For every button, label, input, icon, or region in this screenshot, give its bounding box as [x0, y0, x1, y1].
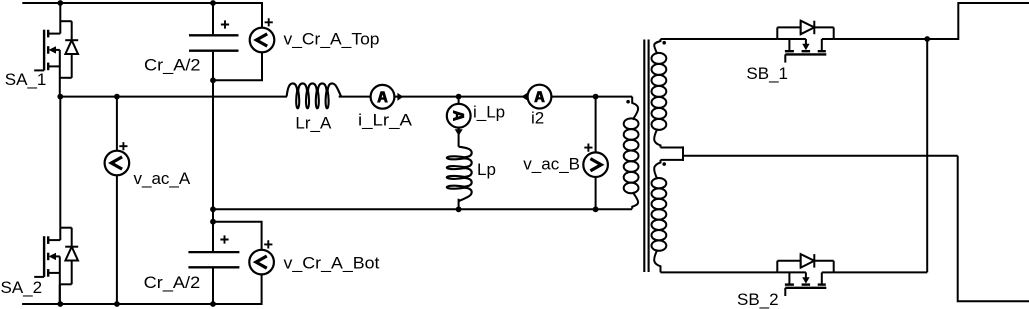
svg-text:i_Lp: i_Lp [473, 103, 505, 122]
svg-text:Lr_A: Lr_A [295, 114, 332, 133]
junction v_ac_A top on mid rail [114, 94, 120, 100]
wire capacitor column [212, 3, 214, 304]
primary phase dot [626, 100, 630, 104]
junction i_Lp branch on mid rail [456, 94, 462, 100]
svg-text:SA_2: SA_2 [1, 278, 43, 297]
svg-text:Cr_A/2: Cr_A/2 [144, 273, 201, 292]
wire mid rail [60, 96, 632, 98]
transistor SA_1 [34, 21, 78, 96]
svg-text:v_Cr_A_Top: v_Cr_A_Top [284, 30, 380, 49]
wire SB_1 rail right to output [834, 3, 1029, 39]
svg-text:i_Lr_A: i_Lr_A [358, 110, 413, 129]
wire SA_2 source to rail [59, 284, 61, 304]
junction top rail / SA_1 drain [57, 0, 63, 6]
voltmeter v_ac_A [105, 151, 130, 176]
transformer secondary bottom winding [652, 160, 667, 273]
wire i_Lp branch [458, 97, 460, 210]
inductor Lr_A [287, 83, 342, 108]
capacitor Cr_A/2 top [189, 35, 239, 50]
wire bottom output [958, 156, 1029, 302]
transistor SB_2 [777, 254, 833, 296]
junction Cr_A top cap / v_Cr_A_Top return [210, 77, 216, 83]
wire SB_2 rail left [661, 271, 778, 273]
transformer primary winding [624, 97, 639, 209]
svg-text:Lp: Lp [477, 160, 496, 179]
ammeter i2 [528, 85, 552, 109]
transformer core [644, 40, 648, 273]
wire bottom rail [22, 274, 262, 304]
wire center tap [661, 146, 958, 161]
wire v_Cr_A_Top return [213, 52, 262, 80]
svg-text:v_ac_B: v_ac_B [523, 155, 580, 174]
wire right bottom rail [213, 208, 632, 210]
wire SA_2 drain [59, 97, 61, 228]
svg-text:SA_1: SA_1 [5, 70, 47, 89]
wire v_ac_B branch [595, 97, 597, 210]
svg-text:SB_1: SB_1 [746, 64, 788, 83]
junction top rail / Cr_A top [210, 0, 216, 6]
svg-text:i2: i2 [531, 108, 544, 127]
junction switch node A (SA_1 source / SA_2 drain) [57, 94, 63, 100]
arrow i2 [521, 93, 527, 101]
svg-text:Cr_A/2: Cr_A/2 [144, 56, 201, 75]
arrow i_Lr_A [397, 93, 403, 101]
junction v_ac_B bottom on return rail [593, 206, 599, 212]
ammeter i_Lp [447, 104, 471, 128]
inductor Lp [447, 147, 472, 202]
svg-text:v_ac_A: v_ac_A [134, 169, 191, 188]
arrow i_Lp [455, 129, 463, 136]
junction cap midpoint / return rail [210, 206, 216, 212]
junction Lp bottom on return rail [456, 206, 462, 212]
svg-text:SB_2: SB_2 [737, 290, 779, 309]
capacitor Cr_A/2 bottom [188, 252, 239, 267]
junction SA_2 source on bottom rail [57, 301, 63, 307]
voltmeter v_ac_B [583, 152, 608, 177]
junction SB_1 drain / output [924, 36, 930, 42]
svg-text:v_Cr_A_Bot: v_Cr_A_Bot [284, 253, 380, 272]
wire v_ac_A branch [116, 97, 118, 304]
junction Cr_A column on bottom rail [210, 301, 216, 307]
wire v_Cr_A_Bot top [213, 222, 262, 250]
transistor SA_2 [34, 228, 78, 303]
wire top rail [22, 3, 262, 28]
wire SB_1 rail left [661, 38, 778, 40]
wire SB_2 rail right [834, 271, 928, 273]
voltmeter v_Cr_A_Bot [249, 250, 274, 275]
junction v_ac_B top on mid rail [593, 94, 599, 100]
secondary bottom phase dot [662, 162, 666, 166]
wire output vertical [926, 39, 928, 272]
transistor SB_1 [777, 21, 833, 63]
wire SA_1 drain [59, 3, 61, 21]
voltmeter v_Cr_A_Top [250, 28, 275, 53]
junction v_ac_A bottom on bottom rail [114, 301, 120, 307]
secondary top phase dot [662, 41, 666, 45]
junction Cr_A bottom cap / v_Cr_A_Bot tap [210, 219, 216, 225]
ammeter i_Lr_A [371, 85, 395, 109]
transformer secondary top winding [652, 39, 667, 148]
